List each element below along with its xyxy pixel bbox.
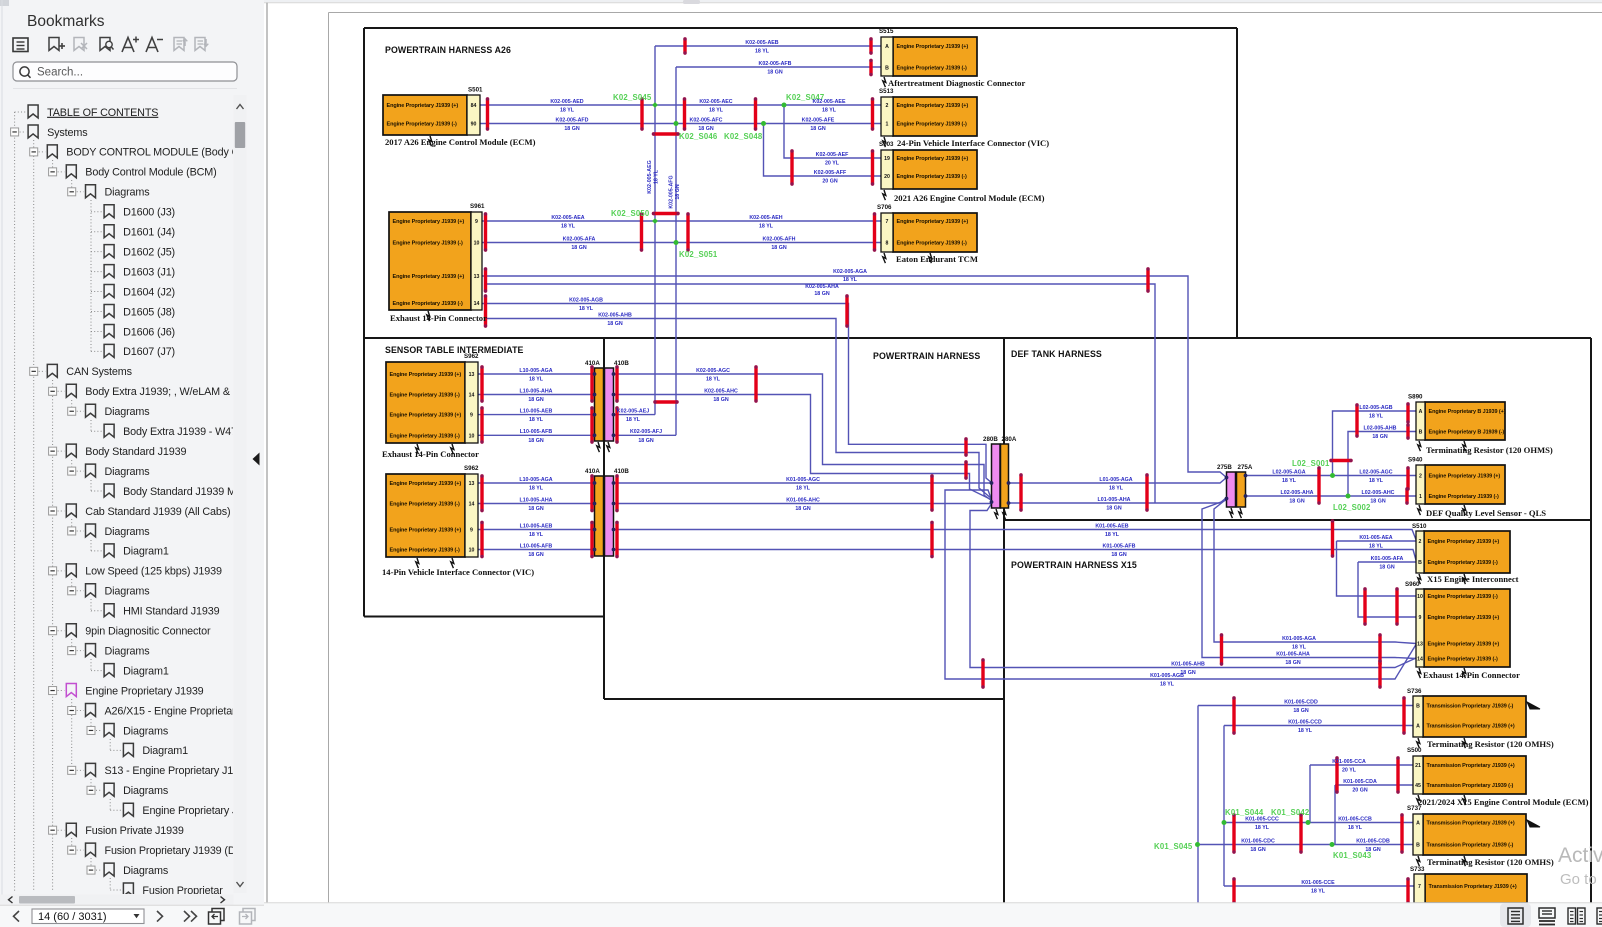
- svg-text:Diagrams: Diagrams: [105, 645, 151, 657]
- wire K01-005-CCC/CCB row: [1224, 822, 1413, 824]
- svg-text:1: 1: [886, 122, 889, 128]
- inline connector 410A (VIC): [585, 468, 604, 556]
- inline connector 275B: [1217, 464, 1236, 507]
- connector S890: [1408, 394, 1553, 456]
- connector S962 VIC: [382, 465, 534, 577]
- svg-text:L02_S001: L02_S001: [1292, 459, 1330, 468]
- svg-text:K01-005-CDA: K01-005-CDA: [1343, 779, 1377, 785]
- svg-text:7: 7: [886, 219, 889, 225]
- svg-text:9: 9: [470, 528, 473, 534]
- svg-text:DEF TANK HARNESS: DEF TANK HARNESS: [1011, 349, 1102, 359]
- svg-text:2017 A26 Engine Control Module: 2017 A26 Engine Control Module (ECM): [385, 137, 536, 147]
- svg-text:14: 14: [1417, 657, 1423, 663]
- svg-text:K02-005-AEC: K02-005-AEC: [699, 99, 732, 105]
- svg-text:K02-005-AEH: K02-005-AEH: [749, 215, 782, 221]
- svg-text:S501: S501: [468, 87, 483, 94]
- svg-text:K02-005-AEJ: K02-005-AEJ: [617, 408, 649, 414]
- svg-text:S500: S500: [1407, 747, 1422, 754]
- red clip markers: [486, 97, 489, 130]
- svg-text:18 YL: 18 YL: [1311, 889, 1326, 895]
- svg-text:K02_S048: K02_S048: [724, 132, 763, 141]
- svg-text:Engine Proprietary J1939 (+): Engine Proprietary J1939 (+): [1428, 615, 1500, 621]
- wire K01-005-CDD: [1198, 705, 1413, 707]
- svg-text:18 GN: 18 GN: [528, 552, 543, 558]
- svg-text:L02-005-AGA: L02-005-AGA: [1272, 469, 1305, 475]
- svg-text:410A: 410A: [585, 468, 600, 475]
- wire K02-005-AFF branch: [764, 124, 882, 177]
- svg-text:D1600 (J3): D1600 (J3): [123, 207, 175, 219]
- svg-text:K02-005-AHC: K02-005-AHC: [704, 388, 738, 394]
- wire L10-005-AGA / K02-005-AGC: [478, 373, 595, 375]
- svg-text:Engine Proprietary J1939 (-): Engine Proprietary J1939 (-): [897, 174, 968, 180]
- connector S503: [879, 141, 1045, 203]
- svg-text:S890: S890: [1408, 394, 1423, 401]
- svg-text:18 GN: 18 GN: [638, 438, 653, 444]
- svg-text:Cab Standard J1939 (All Cabs): Cab Standard J1939 (All Cabs): [85, 506, 230, 518]
- svg-text:Engine Proprietary J1939 (+): Engine Proprietary J1939 (+): [897, 103, 969, 109]
- svg-text:18 YL: 18 YL: [1105, 532, 1120, 538]
- svg-text:K01-005-CDB: K01-005-CDB: [1356, 838, 1390, 844]
- svg-text:14 (60 / 3031): 14 (60 / 3031): [38, 911, 107, 923]
- svg-text:Body Control Module (BCM): Body Control Module (BCM): [85, 167, 216, 179]
- svg-text:18 YL: 18 YL: [1109, 486, 1124, 492]
- svg-text:Diagrams: Diagrams: [123, 725, 169, 737]
- svg-text:280B: 280B: [983, 436, 998, 443]
- svg-text:90: 90: [471, 122, 477, 128]
- connector S960: [1405, 581, 1520, 680]
- svg-text:Engine Proprietary J1939 (-): Engine Proprietary J1939 (-): [1428, 594, 1499, 600]
- svg-text:K01-005-AFB: K01-005-AFB: [1103, 543, 1136, 549]
- splice K02_S048: [724, 121, 766, 141]
- svg-text:20 YL: 20 YL: [825, 161, 840, 167]
- svg-text:L10-005-AHA: L10-005-AHA: [520, 388, 553, 394]
- wire K01-005-CCE: [1224, 885, 1414, 887]
- svg-text:K02-005-AFF: K02-005-AFF: [814, 170, 847, 176]
- svg-text:18 YL: 18 YL: [796, 486, 811, 492]
- splice K02_S051: [674, 240, 718, 259]
- wire K02-005-AEB to S515 pin A: [655, 45, 881, 47]
- svg-text:18 GN: 18 GN: [814, 291, 829, 297]
- svg-text:1: 1: [1419, 494, 1422, 500]
- svg-text:Engine Proprietary J1939 (+): Engine Proprietary J1939 (+): [390, 413, 462, 419]
- svg-text:A: A: [1419, 409, 1423, 415]
- svg-text:Exhaust 14-Pin Connector: Exhaust 14-Pin Connector: [390, 313, 487, 323]
- svg-text:K02-005-AGC: K02-005-AGC: [696, 368, 730, 374]
- wire vertical through splice K01_S044: [1223, 726, 1225, 887]
- svg-text:K02_S051: K02_S051: [679, 250, 718, 259]
- svg-text:Engine Proprietary J1939 (+): Engine Proprietary J1939 (+): [897, 156, 969, 162]
- wire L10-005-AHA / K02-005-AHC: [478, 394, 595, 396]
- svg-text:L10-005-AGA: L10-005-AGA: [519, 477, 552, 483]
- svg-text:18 YL: 18 YL: [1348, 825, 1363, 831]
- svg-text:14: 14: [469, 502, 475, 508]
- svg-text:275A: 275A: [1238, 464, 1253, 471]
- svg-text:Engine Proprietary J1939 (+): Engine Proprietary J1939 (+): [390, 481, 462, 487]
- panel vertical scrollbar: [234, 95, 247, 893]
- svg-text:Transmission Proprietary J1939: Transmission Proprietary J1939 (+): [1427, 763, 1515, 769]
- svg-text:S503: S503: [879, 141, 894, 148]
- svg-text:2: 2: [886, 103, 889, 109]
- panel collapse arrow: [253, 453, 260, 466]
- svg-text:45: 45: [1415, 783, 1421, 789]
- splice K02_S050: [611, 209, 658, 224]
- svg-text:K01-005-AHB: K01-005-AHB: [1171, 661, 1205, 667]
- svg-text:18 GN: 18 GN: [571, 245, 586, 251]
- splice K01_S044: [1222, 808, 1264, 825]
- svg-text:Engine Proprietary J1939 (+): Engine Proprietary J1939 (+): [393, 219, 465, 225]
- svg-text:13: 13: [469, 481, 475, 487]
- svg-text:20 GN: 20 GN: [822, 179, 837, 185]
- svg-text:18 GN: 18 GN: [713, 397, 728, 403]
- wire K01-005-CCA: [1310, 764, 1413, 766]
- svg-text:K02-005-AED: K02-005-AED: [550, 99, 583, 105]
- svg-text:Engine Proprietary J1939 (-): Engine Proprietary J1939 (-): [393, 301, 464, 307]
- wire K02-005-AGA long run: [482, 276, 1227, 478]
- svg-text:K02-005-AFA: K02-005-AFA: [563, 236, 596, 242]
- svg-text:410A: 410A: [585, 360, 600, 367]
- svg-text:Diagrams: Diagrams: [105, 526, 151, 538]
- svg-text:Engine Proprietary J1939 (+): Engine Proprietary J1939 (+): [390, 528, 462, 534]
- svg-text:K01-005-CDD: K01-005-CDD: [1284, 699, 1318, 705]
- svg-text:Engine Proprietary J1939 (-): Engine Proprietary J1939 (-): [390, 502, 461, 508]
- svg-text:18 YL: 18 YL: [706, 377, 721, 383]
- svg-text:18 GN: 18 GN: [1111, 552, 1126, 558]
- svg-text:Engine Proprietary B J1939 (+): Engine Proprietary B J1939 (+): [1429, 409, 1506, 415]
- wire 275B from below (K01-005-AHA): [1202, 500, 1416, 659]
- svg-text:L10-005-AHA: L10-005-AHA: [520, 497, 553, 503]
- inline connector 280B: [983, 436, 1000, 508]
- svg-text:K01-005-CCA: K01-005-CCA: [1332, 759, 1366, 765]
- svg-text:K01-005-AFA: K01-005-AFA: [1371, 556, 1404, 562]
- svg-text:Engine Proprietary J1939 (+): Engine Proprietary J1939 (+): [897, 219, 969, 225]
- svg-text:18 GN: 18 GN: [1106, 506, 1121, 512]
- wire L10-005-AEB: [478, 414, 595, 416]
- svg-text:K01-005-AGA: K01-005-AGA: [1282, 636, 1316, 642]
- svg-text:18 GN: 18 GN: [795, 506, 810, 512]
- svg-text:18 YL: 18 YL: [1292, 645, 1307, 651]
- svg-text:A: A: [1416, 821, 1420, 827]
- svg-text:K02-005-AFE: K02-005-AFE: [802, 117, 835, 123]
- wire L02-005-AGB branch: [1333, 411, 1417, 476]
- svg-text:18 YL: 18 YL: [709, 108, 724, 114]
- svg-text:Engine Proprietary J1939 (-): Engine Proprietary J1939 (-): [1428, 657, 1499, 663]
- svg-text:K02-005-AFG: K02-005-AFG: [669, 175, 675, 208]
- svg-text:Engine Proprietary J1939 (+): Engine Proprietary J1939 (+): [1428, 642, 1500, 648]
- svg-text:18 YL: 18 YL: [529, 532, 544, 538]
- svg-text:10: 10: [469, 548, 475, 554]
- wire K02-005-AGB run to 280B: [482, 304, 992, 484]
- svg-text:18 YL: 18 YL: [529, 377, 544, 383]
- svg-text:Exhaust 14-Pin Connector: Exhaust 14-Pin Connector: [382, 449, 479, 459]
- svg-text:10: 10: [1417, 594, 1423, 600]
- svg-text:Diagrams: Diagrams: [123, 865, 169, 877]
- svg-text:A: A: [885, 44, 889, 50]
- svg-text:A: A: [1416, 724, 1420, 730]
- svg-text:L01-005-AHA: L01-005-AHA: [1098, 497, 1131, 503]
- svg-text:S962: S962: [464, 353, 479, 360]
- svg-text:Engine Proprietary J1939 (-): Engine Proprietary J1939 (-): [1429, 494, 1500, 500]
- svg-text:SENSOR TABLE INTERMEDIATE: SENSOR TABLE INTERMEDIATE: [385, 345, 524, 355]
- wire K02-005-AED/AEC/AEE row: [480, 104, 881, 106]
- wire 275B from below (K01-005-AGA): [1214, 499, 1416, 644]
- svg-text:Terminating Resistor (120 OHMS: Terminating Resistor (120 OHMS): [1426, 445, 1553, 455]
- svg-text:18 GN: 18 GN: [1379, 565, 1394, 571]
- svg-text:S513: S513: [879, 88, 894, 95]
- svg-text:18 YL: 18 YL: [822, 108, 837, 114]
- svg-text:POWERTRAIN HARNESS A26: POWERTRAIN HARNESS A26: [385, 45, 511, 55]
- svg-text:K02-005-AEG: K02-005-AEG: [647, 160, 653, 194]
- svg-text:18 YL: 18 YL: [529, 486, 544, 492]
- page navigation controls: [14, 911, 20, 922]
- splice K02_S045: [613, 93, 658, 108]
- svg-text:Engine Proprietary J1: Engine Proprietary J1: [142, 805, 243, 817]
- svg-text:S961: S961: [470, 203, 485, 210]
- svg-text:18 GN: 18 GN: [1289, 499, 1304, 505]
- svg-text:K02-005-AFC: K02-005-AFC: [690, 117, 723, 123]
- svg-text:18 YL: 18 YL: [579, 306, 594, 312]
- inline connector 410B (VIC): [605, 468, 630, 556]
- svg-text:D1605 (J8): D1605 (J8): [123, 306, 175, 318]
- svg-text:S13 - Engine Proprietary J1939: S13 - Engine Proprietary J1939: [105, 765, 251, 777]
- wire vertical to splice K01_S045: [1197, 706, 1199, 845]
- wire K01-005-CDC/CDB row: [1198, 844, 1414, 846]
- svg-text:84: 84: [471, 103, 477, 109]
- wire K02-005-AHB run to 280B: [486, 319, 992, 500]
- svg-text:Systems: Systems: [47, 127, 88, 139]
- svg-text:B: B: [1416, 843, 1420, 849]
- svg-text:K02-005-AEA: K02-005-AEA: [551, 215, 584, 221]
- svg-text:K02-005-AFJ: K02-005-AFJ: [630, 429, 662, 435]
- svg-text:K02-005-AFH: K02-005-AFH: [763, 236, 796, 242]
- svg-text:Transmission Proprietary J1939: Transmission Proprietary J1939 (+): [1427, 821, 1515, 827]
- left bookmarks panel background: [0, 0, 264, 927]
- svg-text:24-Pin Vehicle Interface Conne: 24-Pin Vehicle Interface Connector (VIC): [897, 138, 1049, 148]
- svg-text:Diagram1: Diagram1: [123, 665, 169, 677]
- svg-text:19: 19: [884, 156, 890, 162]
- connector S500: [1407, 747, 1589, 807]
- svg-text:Engine Proprietary J1939 (-): Engine Proprietary J1939 (-): [897, 241, 968, 247]
- splice K02_S046: [674, 121, 718, 141]
- svg-text:S737: S737: [1407, 805, 1422, 812]
- svg-text:Engine Proprietary J1939 (+): Engine Proprietary J1939 (+): [393, 274, 465, 280]
- svg-text:9: 9: [1419, 615, 1422, 621]
- wire K02-005-AFD/AFC/AFE row: [480, 123, 881, 125]
- wire continuation below page: [1197, 845, 1199, 904]
- vertical wire labels K02-005-AEG / K02-005-AFG: [647, 160, 660, 194]
- svg-text:18 GN: 18 GN: [528, 438, 543, 444]
- connector S940: [1408, 457, 1546, 519]
- label leader ticks: [416, 77, 1466, 866]
- svg-text:18 YL: 18 YL: [1369, 544, 1384, 550]
- svg-text:18 YL: 18 YL: [654, 169, 660, 184]
- svg-text:Go to: Go to: [1560, 871, 1597, 888]
- svg-text:2021/2024 X15 Engine Control M: 2021/2024 X15 Engine Control Module (ECM…: [1418, 797, 1589, 807]
- svg-text:L10-005-AFB: L10-005-AFB: [520, 543, 553, 549]
- wire L10-005-AHA (VIC) / K01-005-AHC: [478, 503, 595, 505]
- svg-text:Diagram1: Diagram1: [123, 546, 169, 558]
- svg-text:L02-005-AHC: L02-005-AHC: [1362, 490, 1395, 496]
- svg-text:Engine Proprietary J1939 (+): Engine Proprietary J1939 (+): [387, 103, 459, 109]
- document pane left border: [266, 3, 268, 903]
- svg-text:Body Standard J1939: Body Standard J1939: [85, 446, 186, 458]
- connector S501: [383, 87, 536, 148]
- svg-text:Activ: Activ: [1558, 844, 1602, 867]
- svg-text:2: 2: [1419, 539, 1422, 545]
- svg-text:280A: 280A: [1002, 436, 1017, 443]
- svg-text:18 GN: 18 GN: [698, 126, 713, 132]
- svg-text:18 GN: 18 GN: [1250, 847, 1265, 853]
- svg-text:275B: 275B: [1217, 464, 1232, 471]
- svg-text:18 GN: 18 GN: [767, 70, 782, 76]
- svg-text:POWERTRAIN HARNESS: POWERTRAIN HARNESS: [873, 351, 980, 361]
- svg-text:D1606 (J6): D1606 (J6): [123, 326, 175, 338]
- connector S733: [1410, 866, 1527, 903]
- wire L01-005-AGA: [1009, 478, 1227, 484]
- svg-text:13: 13: [469, 372, 475, 378]
- svg-text:410B: 410B: [614, 360, 629, 367]
- svg-text:DEF Quality Level Sensor - QLS: DEF Quality Level Sensor - QLS: [1426, 508, 1546, 518]
- wire K02-005-AFB to S515 pin B: [676, 66, 881, 68]
- wire L10-005-AFB (VIC) / K01-005-AFB: [478, 549, 595, 551]
- svg-text:S733: S733: [1410, 866, 1425, 873]
- svg-text:18 GN: 18 GN: [1370, 499, 1385, 505]
- svg-text:K02-005-AEF: K02-005-AEF: [816, 152, 849, 158]
- svg-text:K01-005-AHC: K01-005-AHC: [786, 497, 820, 503]
- svg-text:Diagrams: Diagrams: [123, 785, 169, 797]
- svg-text:Engine Proprietary J1939 (+): Engine Proprietary J1939 (+): [1429, 474, 1501, 480]
- svg-text:K01_S045: K01_S045: [1154, 842, 1193, 851]
- wire K01-005-CDA: [1335, 784, 1413, 786]
- connector S706: [877, 204, 978, 264]
- svg-text:D1601 (J4): D1601 (J4): [123, 227, 175, 239]
- connector S513: [879, 88, 1049, 148]
- connector S962 exhaust: [382, 353, 479, 459]
- svg-text:L01-005-AGA: L01-005-AGA: [1099, 477, 1132, 483]
- wire L02-005-AGA/AGC row: [1246, 475, 1417, 477]
- wire L10-005-AEB (VIC) / K01-005-AEB: [478, 529, 595, 531]
- svg-text:18 GN: 18 GN: [1293, 708, 1308, 714]
- svg-text:Engine Proprietary J1939 (+): Engine Proprietary J1939 (+): [897, 44, 969, 50]
- splice L02_S001: [1292, 459, 1335, 478]
- svg-text:D1602 (J5): D1602 (J5): [123, 246, 175, 258]
- svg-text:2: 2: [1419, 474, 1422, 480]
- svg-text:Engine Proprietary J1939 (-): Engine Proprietary J1939 (-): [390, 393, 461, 399]
- svg-text:Engine Proprietary J1939 (-): Engine Proprietary J1939 (-): [897, 66, 968, 72]
- svg-text:18 YL: 18 YL: [560, 108, 575, 114]
- svg-text:X15 Engine Interconnect: X15 Engine Interconnect: [1427, 574, 1519, 584]
- wire K01-005-AEA: [1337, 540, 1417, 542]
- svg-text:POWERTRAIN HARNESS X15: POWERTRAIN HARNESS X15: [1011, 560, 1137, 570]
- wire bus K02-005-AEG vertical: [654, 46, 656, 415]
- inline connector 410B (exhaust): [605, 360, 630, 441]
- svg-text:18 YL: 18 YL: [1369, 414, 1384, 420]
- svg-text:Engine Proprietary J1939 (-): Engine Proprietary J1939 (-): [393, 241, 464, 247]
- svg-text:410B: 410B: [614, 468, 629, 475]
- wire K02-005-AHA long run: [486, 284, 1155, 503]
- svg-text:S706: S706: [877, 204, 892, 211]
- svg-text:18 YL: 18 YL: [1369, 478, 1384, 484]
- svg-text:18 YL: 18 YL: [626, 417, 641, 423]
- bookmark tree: [11, 105, 261, 897]
- svg-text:B: B: [1419, 430, 1423, 436]
- svg-text:18 GN: 18 GN: [1365, 847, 1380, 853]
- panel toolbar icons: [13, 38, 28, 52]
- svg-text:Fusion Proprietary J1939 (Day: Fusion Proprietary J1939 (Day: [105, 845, 248, 857]
- svg-text:CAN Systems: CAN Systems: [66, 366, 132, 378]
- svg-text:20 YL: 20 YL: [1342, 768, 1357, 774]
- svg-text:18 GN: 18 GN: [771, 245, 786, 251]
- wire L10-005-AFB: [478, 434, 595, 436]
- svg-text:S940: S940: [1408, 457, 1423, 464]
- svg-text:L02-005-AHB: L02-005-AHB: [1364, 425, 1397, 431]
- svg-text:Engine Proprietary J1939 (-): Engine Proprietary J1939 (-): [387, 122, 458, 128]
- wire 280B stub to K01-005-AGB: [945, 490, 1416, 679]
- svg-text:9: 9: [475, 219, 478, 225]
- svg-text:K02-005-AEE: K02-005-AEE: [813, 99, 846, 105]
- wire L10-005-AGA (VIC) / K01-005-AGC: [478, 482, 595, 484]
- svg-text:18 GN: 18 GN: [528, 397, 543, 403]
- svg-text:BODY CONTROL MODULE (Body Cont: BODY CONTROL MODULE (Body Cont: [66, 147, 254, 159]
- svg-text:14: 14: [474, 301, 480, 307]
- svg-text:HMI Standard J1939: HMI Standard J1939: [123, 606, 219, 618]
- svg-text:K02-005-AEB: K02-005-AEB: [745, 40, 778, 46]
- svg-text:Engine Proprietary J1939: Engine Proprietary J1939: [85, 685, 203, 697]
- svg-text:18 GN: 18 GN: [607, 321, 622, 327]
- splice K01_S045: [1154, 842, 1200, 851]
- svg-text:18 YL: 18 YL: [755, 49, 770, 55]
- svg-text:Diagrams: Diagrams: [105, 586, 151, 598]
- wire K02-005-AEJ: [614, 414, 656, 416]
- svg-text:Diagrams: Diagrams: [105, 406, 151, 418]
- svg-text:K02-005-AFB: K02-005-AFB: [759, 61, 792, 67]
- svg-text:K01-005-CCC: K01-005-CCC: [1245, 816, 1279, 822]
- svg-text:18 YL: 18 YL: [529, 417, 544, 423]
- svg-text:Body Extra J1939 - W47e: Body Extra J1939 - W47e: [123, 426, 243, 438]
- svg-text:S515: S515: [879, 28, 894, 35]
- svg-text:Exhaust 14-Pin Connector: Exhaust 14-Pin Connector: [1423, 670, 1520, 680]
- svg-text:Transmission Proprietary J1939: Transmission Proprietary J1939 (-): [1427, 843, 1514, 849]
- svg-text:K01-005-AHA: K01-005-AHA: [1276, 651, 1310, 657]
- svg-text:K02_S046: K02_S046: [679, 132, 718, 141]
- wire L02-005-AHB branch: [1348, 432, 1416, 497]
- svg-text:L10-005-AFB: L10-005-AFB: [520, 429, 553, 435]
- svg-text:Terminating Resistor (120 OMHS: Terminating Resistor (120 OMHS): [1427, 857, 1554, 867]
- splice K01_S043: [1330, 842, 1372, 860]
- svg-text:13: 13: [474, 274, 480, 280]
- wire bus K02-005-AFG vertical: [675, 67, 677, 435]
- svg-text:K01-005-AEB: K01-005-AEB: [1095, 523, 1128, 529]
- svg-text:K02-005-AHA: K02-005-AHA: [805, 284, 839, 290]
- svg-text:7: 7: [1418, 884, 1421, 890]
- svg-text:K02-005-AGA: K02-005-AGA: [833, 269, 867, 275]
- svg-text:Body Standard J1939 Ma: Body Standard J1939 Ma: [123, 486, 242, 498]
- svg-text:S510: S510: [1412, 523, 1427, 530]
- svg-text:Bookmarks: Bookmarks: [27, 13, 105, 30]
- svg-text:Transmission Proprietary J1939: Transmission Proprietary J1939 (-): [1427, 783, 1514, 789]
- svg-text:Engine Proprietary J1939 (+): Engine Proprietary J1939 (+): [390, 372, 462, 378]
- svg-text:L02-005-AGC: L02-005-AGC: [1359, 469, 1392, 475]
- svg-text:L02-005-AHA: L02-005-AHA: [1281, 490, 1314, 496]
- connector pin junction dots: [593, 372, 1248, 551]
- svg-text:18 YL: 18 YL: [561, 224, 576, 230]
- svg-text:9: 9: [470, 413, 473, 419]
- inline connector 280A: [1001, 436, 1017, 508]
- svg-text:Terminating Resistor (120 OMHS: Terminating Resistor (120 OMHS): [1427, 739, 1554, 749]
- svg-text:K01-005-AGB: K01-005-AGB: [1150, 673, 1184, 679]
- wire K02-005-AFJ: [614, 434, 677, 436]
- svg-text:Engine Proprietary B J1939 (-): Engine Proprietary B J1939 (-): [1429, 430, 1505, 436]
- wire K02-005-AFA/AFH row: [482, 242, 881, 244]
